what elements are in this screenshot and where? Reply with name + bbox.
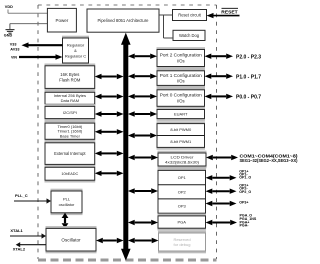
svg-text:P2.0 - P2.3: P2.0 - P2.3 [236, 54, 261, 60]
wire VDD vertical stub [7, 10, 9, 14]
block Oscillator [46, 226, 97, 253]
block LCD Driver [158, 151, 207, 169]
svg-text:Reset circuit: Reset circuit [178, 12, 201, 17]
svg-text:oscillator: oscillator [59, 202, 75, 207]
svg-text:SEG1~32(SEG2~XX,SEG3~XX): SEG1~32(SEG2~XX,SEG3~XX) [240, 158, 299, 163]
block Watch Dog [173, 30, 205, 40]
block Reset circuit [173, 10, 207, 21]
svg-text:Base Timer: Base Timer [60, 133, 81, 138]
arrow VIN into regulator [19, 54, 63, 60]
ground symbol [6, 30, 15, 34]
arrow port1 pins [205, 74, 234, 79]
svg-text:&: & [74, 48, 77, 53]
arrow bus-eadc [95, 171, 124, 176]
wire GND to Power box [10, 23, 48, 25]
wire VDD to Power box [8, 12, 47, 14]
arrow bus-i2c [95, 111, 124, 116]
block PGA [158, 214, 207, 231]
block Flash ROM [45, 64, 96, 91]
arrow bus-port2 [128, 54, 157, 59]
block Port 1 [157, 69, 206, 88]
arrow bus-port1 [128, 74, 157, 79]
PWM divider and row labels [157, 127, 205, 144]
wire core to reset circuit [159, 14, 173, 16]
arrow PLL_C input [14, 198, 51, 203]
svg-text:Regulator C: Regulator C [65, 54, 86, 59]
block PWM [157, 121, 206, 149]
arrow op1 pins [206, 175, 237, 180]
chip boundary dashed border bottom [38, 259, 217, 262]
arrow bus-pga [128, 220, 158, 225]
svg-text:Power: Power [56, 18, 69, 23]
arrow bus-euart [128, 111, 157, 116]
svg-text:XTAL2: XTAL2 [13, 246, 26, 251]
arrow bus-op [128, 188, 158, 193]
svg-text:External Interrupt: External Interrupt [54, 151, 86, 156]
arrow pga pins [206, 220, 238, 225]
svg-text:Port 2 Configuration: Port 2 Configuration [160, 53, 203, 58]
svg-text:Port 0 Configuration: Port 0 Configuration [160, 93, 203, 98]
arrow XTAL1 input [10, 233, 46, 238]
svg-text:I/Os: I/Os [177, 58, 185, 63]
svg-text:10bEADC: 10bEADC [61, 172, 78, 176]
svg-text:OP2: OP2 [178, 189, 187, 194]
arrow port2 pins [205, 54, 234, 59]
arrow bus-ram [95, 94, 124, 99]
arrow lcd pins [206, 155, 238, 160]
svg-text:PGA-: PGA- [240, 224, 250, 228]
svg-text:Regulator: Regulator [67, 42, 85, 47]
block I2C/SPI [45, 104, 96, 121]
block Regulator [62, 36, 89, 66]
svg-text:Port 1 Configuration: Port 1 Configuration [160, 73, 203, 78]
svg-text:Watch Dog: Watch Dog [179, 33, 200, 38]
chip boundary dashed border right [216, 5, 218, 259]
svg-text:Flash ROM: Flash ROM [59, 77, 81, 82]
block EADC [45, 165, 96, 183]
block EUART [157, 107, 206, 121]
block Timers [45, 121, 96, 142]
svg-text:AV33: AV33 [10, 48, 19, 52]
block OP amps [158, 168, 207, 215]
arrow PLL to oscillator [62, 213, 69, 229]
wire branch down to watch dog [164, 15, 174, 38]
svg-text:Oscillator: Oscillator [61, 237, 81, 242]
arrow RESET into reset circuit [207, 13, 240, 18]
svg-text:PLL_C: PLL_C [15, 193, 28, 198]
svg-text:16K Bytes: 16K Bytes [60, 72, 79, 77]
arrow port0 pins [205, 94, 234, 99]
arrow bus-timers [95, 129, 124, 134]
svg-text:I/Os: I/Os [177, 98, 185, 103]
OP dividers and row labels [158, 175, 206, 209]
svg-text:EUART: EUART [174, 112, 188, 117]
svg-text:I2C/SPI: I2C/SPI [63, 110, 77, 115]
svg-text:GND: GND [4, 34, 13, 38]
arrow op3 pins [206, 201, 237, 206]
svg-text:OP3: OP3 [178, 204, 187, 209]
RESET overline [222, 7, 239, 9]
arrow bus-reserved [128, 238, 159, 243]
block Data RAM [45, 90, 96, 107]
svg-text:RESET: RESET [221, 10, 237, 16]
system bus [121, 33, 131, 261]
svg-text:P0.0 - P0.7: P0.0 - P0.7 [236, 94, 261, 100]
svg-text:V33: V33 [10, 42, 17, 46]
wire GND vertical drop [9, 24, 11, 29]
block Port 0 [157, 88, 206, 109]
svg-text:Pipelined 8051 Architecture: Pipelined 8051 Architecture [98, 18, 150, 23]
arrow bus-port0 [128, 94, 157, 99]
svg-text:I/Os: I/Os [177, 78, 185, 83]
arrow bus-extint [95, 151, 124, 156]
svg-text:PGA: PGA [178, 220, 187, 225]
svg-text:for debug: for debug [174, 242, 191, 247]
svg-text:OP1_O: OP1_O [239, 176, 251, 180]
arrow XTAL2 output [16, 242, 46, 247]
arrow regulator output V33/AV33 [22, 42, 63, 48]
chip boundary dashed border left [37, 5, 39, 259]
arrow bus-pwm [128, 133, 157, 138]
block PLL oscillator [51, 189, 83, 215]
svg-text:8-bit PWM1: 8-bit PWM1 [170, 139, 192, 144]
block Port 2 [157, 47, 206, 69]
svg-text:Data RAM: Data RAM [61, 98, 79, 103]
svg-text:P1.0 - P1.7: P1.0 - P1.7 [236, 74, 261, 80]
arrow bus-oscillator [96, 238, 124, 243]
block Power [47, 8, 76, 32]
block External Interrupt [45, 141, 96, 167]
arrow bus-lcd [128, 155, 158, 160]
svg-text:8-bit PWM0: 8-bit PWM0 [170, 127, 192, 132]
arrow op2 pins [206, 189, 237, 194]
block Reserved for debug [158, 231, 206, 254]
chip boundary dashed border top [38, 4, 217, 6]
svg-text:XTAL1: XTAL1 [10, 228, 23, 233]
svg-text:VDD: VDD [5, 5, 13, 9]
arrow bus-flash [95, 74, 124, 79]
svg-text:VIN: VIN [11, 55, 17, 59]
svg-text:OP3+: OP3+ [239, 201, 248, 205]
svg-text:4x32(8x28,6x30): 4x32(8x28,6x30) [165, 160, 200, 165]
svg-text:OP2_O: OP2_O [239, 190, 251, 194]
svg-text:OP1: OP1 [178, 175, 187, 180]
block 8051 core [87, 9, 159, 32]
